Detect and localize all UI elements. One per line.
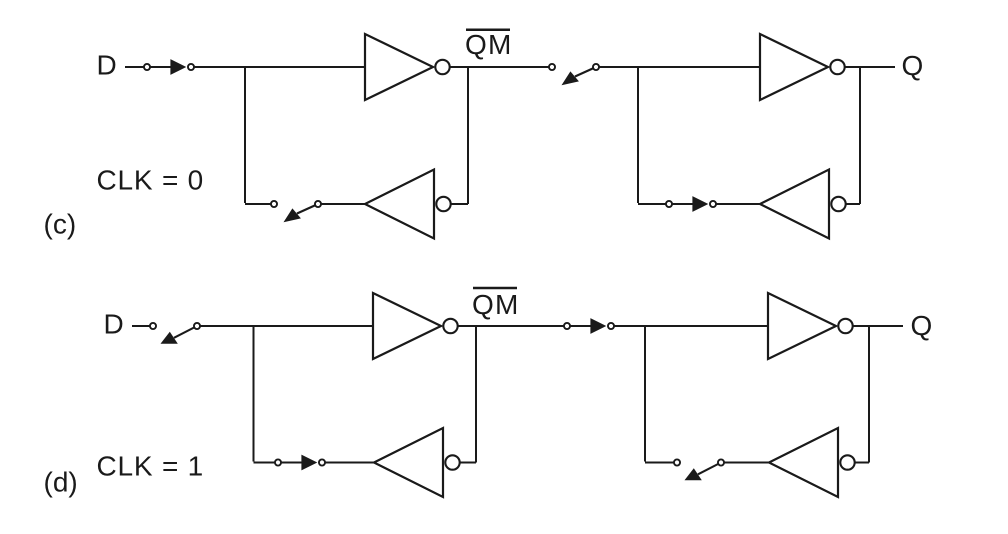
svg-text:QM: QM (472, 289, 520, 320)
svg-text:(d): (d) (44, 467, 78, 498)
svg-text:Q: Q (902, 50, 924, 81)
svg-text:CLK = 0: CLK = 0 (97, 164, 205, 195)
svg-text:QM: QM (465, 29, 513, 60)
svg-text:CLK = 1: CLK = 1 (97, 451, 205, 482)
svg-text:Q: Q (911, 310, 933, 341)
svg-text:D: D (97, 49, 117, 80)
svg-text:D: D (104, 308, 124, 339)
svg-text:(c): (c) (44, 209, 77, 240)
